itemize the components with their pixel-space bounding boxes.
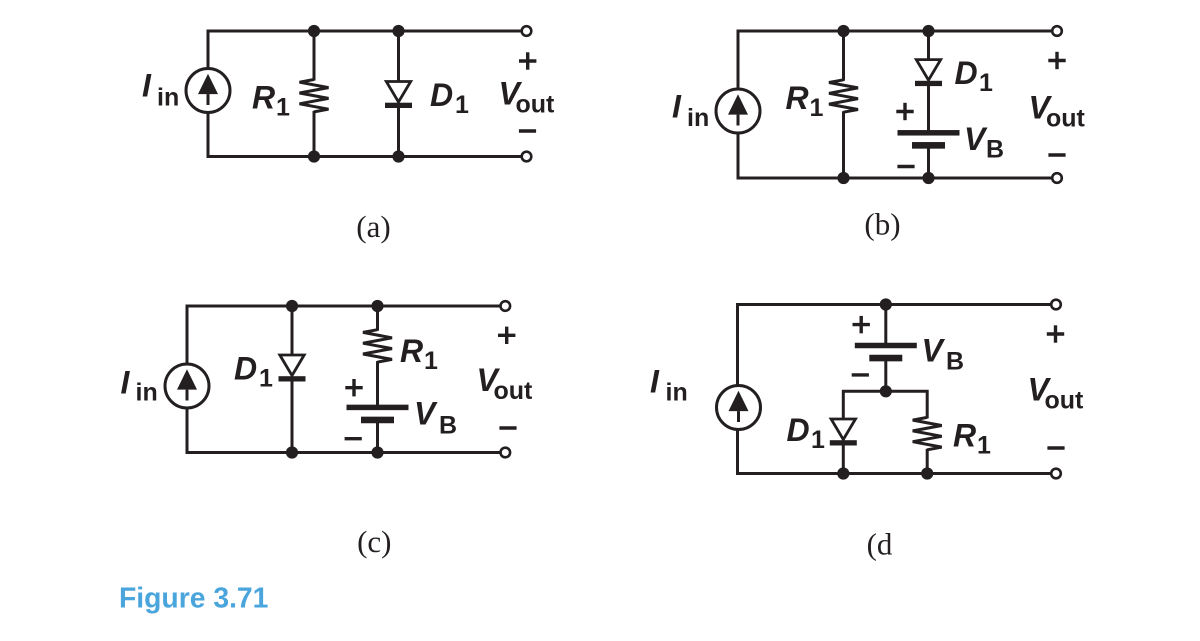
svg-text:V: V xyxy=(964,121,988,157)
svg-text:out: out xyxy=(516,91,556,119)
svg-text:out: out xyxy=(494,377,534,405)
svg-text:1: 1 xyxy=(811,426,825,454)
svg-text:B: B xyxy=(986,136,1004,164)
svg-text:I: I xyxy=(142,68,152,104)
svg-text:I: I xyxy=(672,88,682,124)
svg-text:Figure 3.71: Figure 3.71 xyxy=(119,581,268,613)
svg-text:1: 1 xyxy=(455,91,469,119)
svg-text:D: D xyxy=(955,55,978,91)
svg-text:D: D xyxy=(787,412,810,448)
svg-text:D: D xyxy=(234,351,257,387)
svg-text:R: R xyxy=(252,80,275,116)
svg-text:(d: (d xyxy=(867,527,893,562)
svg-text:out: out xyxy=(1046,104,1086,132)
svg-text:in: in xyxy=(687,104,709,132)
svg-text:B: B xyxy=(946,347,964,375)
svg-text:1: 1 xyxy=(810,94,824,122)
svg-text:1: 1 xyxy=(424,347,438,375)
svg-text:R: R xyxy=(400,333,423,369)
svg-text:B: B xyxy=(439,412,457,440)
svg-text:1: 1 xyxy=(276,94,290,122)
svg-text:in: in xyxy=(666,378,688,406)
svg-text:in: in xyxy=(157,84,179,112)
svg-text:(b): (b) xyxy=(864,207,900,242)
svg-text:R: R xyxy=(786,80,809,116)
svg-text:1: 1 xyxy=(977,432,991,460)
svg-text:I: I xyxy=(121,365,131,401)
svg-text:in: in xyxy=(136,378,158,406)
svg-text:V: V xyxy=(414,396,438,432)
svg-text:(a): (a) xyxy=(356,209,390,244)
svg-text:1: 1 xyxy=(979,69,993,97)
svg-text:R: R xyxy=(953,418,976,454)
svg-text:(c): (c) xyxy=(357,524,391,559)
svg-text:I: I xyxy=(650,364,660,400)
svg-text:V: V xyxy=(922,333,946,369)
svg-text:out: out xyxy=(1045,386,1085,414)
svg-text:D: D xyxy=(430,77,453,113)
svg-text:1: 1 xyxy=(259,365,273,393)
